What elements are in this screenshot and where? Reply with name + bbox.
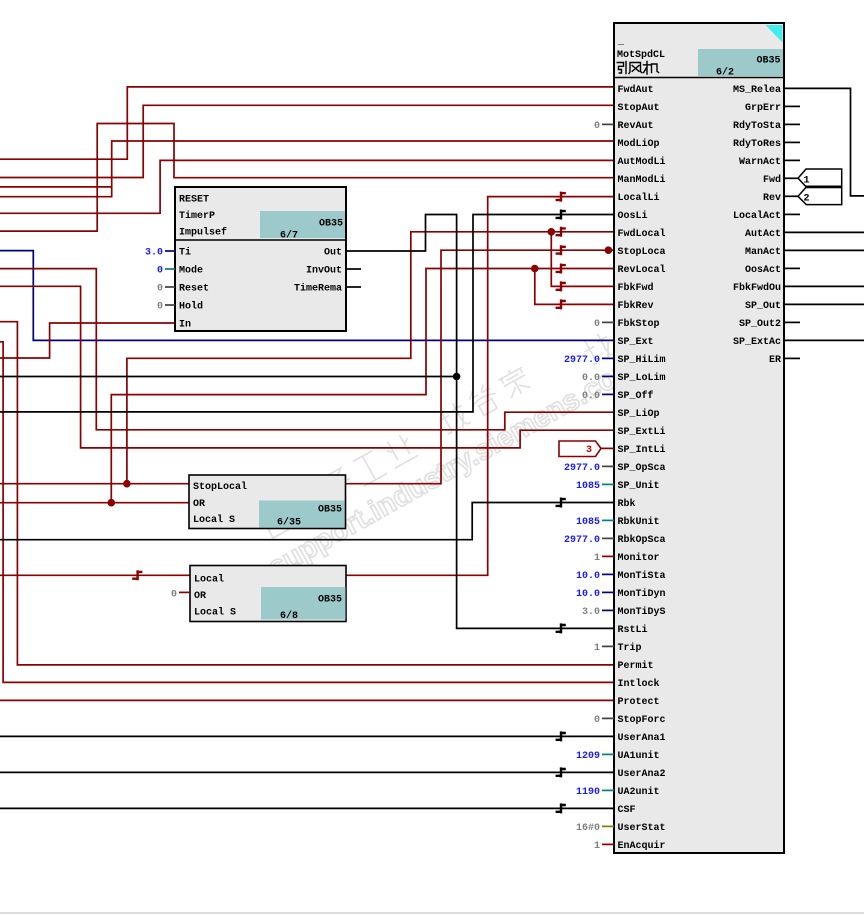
- svg-text:MonTiDyn: MonTiDyn: [618, 588, 666, 600]
- svg-text:1085: 1085: [576, 517, 600, 528]
- node junction FwdLocal branch: [548, 228, 556, 236]
- svg-text:MonTiSta: MonTiSta: [618, 570, 666, 582]
- wire FbkRev branch: [535, 269, 614, 305]
- wire RstLi branch to left: [0, 376, 457, 378]
- wire RbkOpSca stub: [602, 537, 614, 539]
- svg-text:RESET: RESET: [179, 195, 209, 206]
- svg-text:FbkRev: FbkRev: [618, 300, 654, 312]
- wire SP_IntLi stub: [601, 447, 614, 449]
- node node at StopLoca pin: [605, 246, 613, 254]
- svg-text:ER: ER: [769, 355, 781, 366]
- svg-text:CSF: CSF: [618, 805, 636, 816]
- svg-text:FwdLocal: FwdLocal: [618, 228, 666, 240]
- svg-text:RdyToRes: RdyToRes: [733, 138, 781, 150]
- svg-text:0: 0: [594, 715, 600, 726]
- wire FbkStop stub: [602, 321, 614, 323]
- svg-text:UserAna1: UserAna1: [618, 733, 666, 744]
- wire SP_ExtLi feed: [0, 286, 614, 448]
- wire WarnAct stub: [784, 159, 800, 161]
- svg-text:Local: Local: [194, 574, 224, 586]
- wire StopForc stub: [602, 717, 614, 719]
- wire TimeRema stub: [346, 286, 361, 288]
- svg-text:UA1unit: UA1unit: [618, 750, 660, 762]
- wire FwdAut feed: [0, 87, 614, 159]
- svg-text:6/7: 6/7: [280, 230, 298, 242]
- wire SP_ExtAc out: [784, 339, 864, 341]
- svg-text:RbkOpSca: RbkOpSca: [618, 534, 666, 546]
- svg-text:SP_OpSca: SP_OpSca: [618, 463, 666, 474]
- svg-text:In: In: [179, 320, 191, 331]
- svg-text:SP_Ext: SP_Ext: [618, 337, 654, 348]
- wire UA1unit stub: [602, 753, 614, 755]
- wire RbkUnit stub: [602, 519, 614, 521]
- svg-text:AutAct: AutAct: [745, 229, 781, 240]
- wire SP_Out2 stub: [784, 321, 800, 323]
- svg-text:MS_Relea: MS_Relea: [733, 84, 781, 96]
- svg-text:Monitor: Monitor: [618, 552, 660, 564]
- svg-text:10.0: 10.0: [576, 571, 600, 582]
- function block U4 Local OR Local S 6/8: [190, 566, 346, 623]
- svg-text:FwdAut: FwdAut: [618, 84, 654, 96]
- svg-text:Hold: Hold: [179, 301, 203, 313]
- wire RevLocal riser: [111, 269, 614, 503]
- wire InvOut stub: [346, 268, 361, 270]
- svg-text:OB35: OB35: [319, 219, 343, 230]
- wire OosAct stub: [784, 267, 800, 269]
- svg-text:OB35: OB35: [318, 595, 342, 606]
- svg-text:RstLi: RstLi: [618, 624, 648, 636]
- svg-text:SP_HiLim: SP_HiLim: [618, 354, 666, 366]
- svg-text:SP_Unit: SP_Unit: [618, 480, 660, 492]
- wire U4 OR stub: [179, 591, 190, 593]
- wire FbkFwd branch: [551, 232, 614, 287]
- wire LocalAct stub: [784, 213, 800, 215]
- svg-text:Local S: Local S: [194, 607, 236, 619]
- svg-text:1190: 1190: [576, 787, 600, 798]
- bool indicator UserAna2: [556, 767, 566, 777]
- wire UserStat stub: [602, 825, 614, 827]
- svg-text:UserAna2: UserAna2: [618, 769, 666, 780]
- function block U2 MotSpdCL (motor speed control) OB35 6/2: [614, 23, 784, 853]
- svg-text:Rbk: Rbk: [618, 498, 636, 510]
- svg-text:1: 1: [594, 643, 600, 654]
- svg-text:OB35: OB35: [318, 505, 342, 516]
- svg-text:Ti: Ti: [179, 247, 191, 259]
- svg-text:10.0: 10.0: [576, 589, 600, 600]
- operand box value 3 on U2.SP_IntLi: [559, 441, 601, 457]
- wire OosLi feed: [0, 215, 614, 412]
- svg-text:0: 0: [594, 121, 600, 132]
- bool indicator Rbk: [556, 498, 566, 508]
- svg-text:StopLoca: StopLoca: [618, 247, 666, 258]
- svg-text:RbkUnit: RbkUnit: [618, 516, 660, 528]
- svg-text:LocalAct: LocalAct: [733, 210, 781, 222]
- bool indicator FbkRev: [556, 299, 566, 309]
- svg-text:6/8: 6/8: [280, 610, 298, 622]
- svg-text:Trip: Trip: [618, 642, 642, 654]
- wire MonTiDyn stub: [602, 591, 614, 593]
- svg-text:0.0: 0.0: [582, 373, 600, 384]
- svg-text:StopLocal: StopLocal: [193, 481, 247, 493]
- wire UserAna1 feed: [0, 735, 614, 737]
- wire RdyToSta stub: [784, 123, 800, 125]
- bool indicator CSF: [556, 803, 566, 813]
- wire SP_LiOp feed: [0, 269, 614, 430]
- svg-text:3: 3: [586, 445, 592, 456]
- wire Rev out: [784, 195, 798, 197]
- svg-text:3.0: 3.0: [145, 248, 163, 259]
- svg-text:AutModLi: AutModLi: [618, 156, 666, 168]
- svg-text:1: 1: [594, 553, 600, 564]
- svg-text:1: 1: [594, 841, 600, 852]
- wire Mode stub: [165, 268, 175, 270]
- svg-text:TimeRema: TimeRema: [294, 283, 342, 295]
- chinese label yin-feng-ji (induced draft fan): [617, 62, 658, 75]
- wire ManAct out: [784, 249, 864, 251]
- wire SP_Out out: [784, 303, 864, 305]
- wire CSF feed: [0, 807, 614, 809]
- wire SP_Ext feed: [0, 251, 614, 341]
- wire SP_Unit stub: [602, 483, 614, 485]
- svg-text:SP_LiOp: SP_LiOp: [618, 408, 660, 420]
- svg-text:Local S: Local S: [193, 514, 235, 526]
- svg-text:SP_LoLim: SP_LoLim: [618, 372, 666, 384]
- svg-text:EnAcquir: EnAcquir: [618, 840, 666, 852]
- svg-text:Mode: Mode: [179, 265, 203, 277]
- wire ManModLi feed: [0, 124, 614, 232]
- wire Local out to LocalLi: [346, 197, 614, 576]
- svg-text:SP_Off: SP_Off: [618, 390, 654, 402]
- svg-text:6/35: 6/35: [277, 517, 301, 529]
- wire FwdLocal riser: [127, 232, 614, 484]
- wire RdyToRes stub: [784, 141, 800, 143]
- svg-text:16#0: 16#0: [576, 823, 600, 834]
- wire Ti stub: [165, 250, 175, 252]
- sheet reference box 1 (Fwd) and 2 (Rev): [798, 169, 842, 205]
- wire SP_HiLim stub: [602, 357, 614, 359]
- svg-text:0: 0: [157, 302, 163, 313]
- svg-text:2977.0: 2977.0: [564, 535, 600, 546]
- wire Permit feed: [0, 322, 614, 665]
- svg-text:Intlock: Intlock: [618, 678, 660, 690]
- wire SP_Off stub: [602, 393, 614, 395]
- svg-text:LocalLi: LocalLi: [618, 192, 660, 204]
- svg-text:OR: OR: [194, 591, 206, 602]
- svg-text:OosAct: OosAct: [745, 265, 781, 276]
- wire Protect feed: [0, 699, 614, 701]
- svg-text:SP_IntLi: SP_IntLi: [618, 444, 666, 456]
- svg-text:2977.0: 2977.0: [564, 355, 600, 366]
- wire MonTiDyS stub: [602, 609, 614, 611]
- wire Intlock feed: [0, 342, 614, 683]
- wire StopAut feed: [0, 105, 614, 177]
- function block U1 RESET TimerP Impulsef 6/7: [175, 187, 346, 331]
- svg-text:RevAut: RevAut: [618, 121, 654, 132]
- wire RevAut stub: [602, 123, 614, 125]
- wire ER stub: [784, 357, 800, 359]
- svg-text:Impulsef: Impulsef: [179, 227, 227, 239]
- svg-text:RdyToSta: RdyToSta: [733, 120, 781, 132]
- wire RESET Out to RstLi: [346, 215, 614, 629]
- svg-text:InvOut: InvOut: [306, 266, 342, 277]
- svg-text:1: 1: [804, 175, 810, 186]
- svg-text:OB35: OB35: [756, 56, 780, 67]
- node junction RstLi branch: [453, 373, 461, 381]
- svg-text:MotSpdCL: MotSpdCL: [617, 49, 665, 61]
- wire Fwd out: [784, 177, 798, 179]
- svg-text:ModLiOp: ModLiOp: [618, 138, 660, 150]
- wire UserAna2 feed: [0, 771, 614, 773]
- bool indicator StopLoca: [556, 245, 566, 255]
- svg-text:_: _: [617, 37, 625, 48]
- svg-text:RevLocal: RevLocal: [618, 264, 666, 276]
- svg-text:SP_Out: SP_Out: [745, 301, 781, 312]
- bool indicator RstLi: [556, 623, 566, 633]
- svg-text:FbkFwdOu: FbkFwdOu: [733, 282, 781, 294]
- svg-text:StopForc: StopForc: [618, 715, 666, 726]
- svg-text:SP_ExtAc: SP_ExtAc: [733, 337, 781, 348]
- wire UA2unit stub: [602, 789, 614, 791]
- svg-text:0: 0: [157, 266, 163, 277]
- node junction RevLocal branch: [531, 265, 539, 273]
- wire Reset stub: [165, 286, 175, 288]
- wire stub into ModLiOp riser: [0, 186, 112, 188]
- svg-text:ManAct: ManAct: [745, 247, 781, 258]
- wire RESET In feed: [0, 323, 175, 358]
- wire AutAct out: [784, 231, 864, 233]
- svg-text:TimerP: TimerP: [179, 210, 215, 222]
- wire GrpErr stub: [784, 105, 800, 107]
- svg-text:0.0: 0.0: [582, 391, 600, 402]
- svg-text:Protect: Protect: [618, 697, 660, 708]
- wire Local in1 feed: [0, 574, 190, 576]
- wire EnAcquir stub: [602, 843, 614, 845]
- watermark url text diagonal: [263, 330, 680, 584]
- svg-text:1209: 1209: [576, 751, 600, 762]
- function block U3 StopLocal OR Local S 6/35: [189, 475, 346, 529]
- node junction StopLocal in2 / RevLocal riser: [108, 499, 116, 507]
- svg-text:3.0: 3.0: [582, 607, 600, 618]
- wire MonTiSta stub: [602, 573, 614, 575]
- svg-text:FbkStop: FbkStop: [618, 318, 660, 330]
- wire Trip stub: [602, 645, 614, 647]
- svg-text:WarnAct: WarnAct: [739, 157, 781, 168]
- svg-text:ManModLi: ManModLi: [618, 174, 666, 186]
- svg-text:0: 0: [171, 589, 177, 600]
- svg-text:StopAut: StopAut: [618, 103, 660, 114]
- node junction StopLocal in1 / FwdLocal riser: [123, 480, 131, 488]
- wire ModLiOp feed: [0, 141, 614, 197]
- svg-text:MonTiDyS: MonTiDyS: [618, 606, 666, 618]
- svg-text:Permit: Permit: [618, 660, 654, 672]
- svg-text:FbkFwd: FbkFwd: [618, 282, 654, 294]
- bool indicator LocalLi: [556, 192, 566, 202]
- svg-text:2977.0: 2977.0: [564, 463, 600, 474]
- svg-text:2: 2: [804, 194, 810, 205]
- watermark chinese glyphs: [258, 313, 648, 540]
- svg-text:UA2unit: UA2unit: [618, 786, 660, 798]
- bool indicator FwdLocal: [556, 227, 566, 237]
- wire StopLocal out to StopLoca: [346, 250, 615, 484]
- bool indicator FbkFwd: [556, 281, 566, 291]
- svg-text:Rev: Rev: [763, 193, 781, 204]
- wire FbkFwdOu out: [784, 285, 864, 287]
- sheet bottom border: [0, 912, 864, 914]
- svg-text:1085: 1085: [576, 481, 600, 492]
- svg-text:6/2: 6/2: [716, 67, 734, 79]
- svg-text:OR: OR: [193, 499, 205, 510]
- svg-text:OosLi: OosLi: [618, 210, 648, 222]
- svg-text:Reset: Reset: [179, 284, 209, 295]
- wire Rbk feed: [0, 503, 614, 540]
- wire MS_Relea out: [784, 88, 864, 195]
- wire Monitor stub: [602, 555, 614, 557]
- svg-text:SP_Out2: SP_Out2: [739, 319, 781, 330]
- svg-text:0: 0: [594, 319, 600, 330]
- wire StopLocal in2 feed: [0, 502, 189, 504]
- bool indicator RevLocal: [556, 264, 566, 274]
- wire StopLocal in1 feed: [0, 483, 189, 485]
- svg-text:UserStat: UserStat: [618, 823, 666, 834]
- svg-text:0: 0: [157, 284, 163, 295]
- bool indicator OosLi: [556, 210, 566, 220]
- wire AutModLi feed: [0, 160, 614, 213]
- wire Hold stub: [165, 304, 175, 306]
- svg-text:Fwd: Fwd: [763, 174, 781, 186]
- bool indicator UserAna1: [556, 731, 566, 741]
- wire SP_LoLim stub: [602, 375, 614, 377]
- wire SP_OpSca stub: [602, 465, 614, 467]
- bool indicator Local in1: [132, 570, 142, 580]
- svg-text:GrpErr: GrpErr: [745, 103, 781, 114]
- svg-text:Out: Out: [324, 248, 342, 259]
- svg-text:SP_ExtLi: SP_ExtLi: [618, 426, 666, 438]
